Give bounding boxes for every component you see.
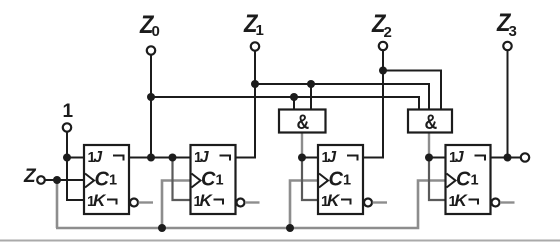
U1 inverted output stub wire (139, 201, 154, 203)
wire drop Z0 rail to left AND gate (293, 97, 295, 110)
bottom page rule (0, 240, 560, 242)
junction Z3 at Q4 (504, 154, 512, 162)
junction bus to U2 clock (158, 224, 166, 232)
label Z3 (496, 9, 517, 40)
svg-text:0: 0 (152, 23, 160, 40)
U4 inverted output bubble (492, 199, 500, 207)
wire Z0 vertical (150, 55, 152, 158)
U3 inverted output stub wire (373, 201, 388, 203)
svg-text:2: 2 (384, 24, 392, 41)
terminal Z0 (147, 46, 155, 54)
svg-text:1: 1 (216, 173, 224, 189)
output terminal right (521, 153, 529, 161)
U3 inverted output bubble (364, 199, 372, 207)
svg-text:&: & (425, 111, 438, 135)
svg-text:1: 1 (63, 101, 74, 122)
AND gate G2 (&) (408, 110, 452, 135)
svg-text:1: 1 (471, 173, 479, 189)
wire Z3 vertical (507, 51, 509, 158)
terminal 1 (63, 123, 71, 131)
junction Z0 at Q1 (147, 154, 155, 162)
wire clock bottom bus with riser to U4 C1 (56, 181, 445, 229)
junction Z1 rail (251, 80, 259, 88)
JK flip-flop U4 box (446, 145, 491, 214)
svg-text:&: & (297, 111, 310, 135)
label Z2 (371, 10, 392, 41)
svg-text:J: J (328, 149, 337, 166)
label Z1 (243, 10, 264, 39)
junction Z1 to G1 (307, 80, 315, 88)
svg-text:C: C (456, 169, 471, 191)
junction Z0 rail (147, 93, 155, 101)
svg-text:K: K (327, 191, 341, 210)
wire U4 Q to output terminal (491, 157, 521, 159)
terminal Z (37, 176, 45, 184)
terminal Z2 (379, 42, 387, 50)
svg-text:K: K (93, 191, 107, 210)
svg-text:K: K (200, 191, 214, 210)
wire clock from Z down to bottom bus (56, 181, 59, 228)
U2 inverted output stub wire (245, 201, 260, 203)
label Z0 (139, 11, 160, 40)
wire U3 J to K drop (302, 158, 318, 201)
wire drop Z1 rail to left AND gate (310, 84, 312, 110)
junction U3 J/K (298, 154, 306, 162)
svg-text:1: 1 (343, 173, 351, 189)
junction bus to U3 clock (286, 224, 294, 232)
wire rail Z1 to right AND gate (255, 84, 429, 110)
U4 inverted output stub wire (500, 201, 515, 203)
wire rail Z2 to right AND gate (383, 71, 441, 111)
svg-text:J: J (455, 149, 464, 166)
svg-text:C: C (329, 169, 344, 191)
wire Z2 vertical to U3 Q (363, 50, 383, 158)
wire Z terminal to U1 C1 (45, 179, 85, 181)
junction U2 J/K (169, 154, 177, 162)
svg-text:Z: Z (23, 166, 37, 187)
svg-text:C: C (95, 169, 110, 191)
wire left AND output to U3 1J (301, 133, 303, 158)
svg-text:1: 1 (256, 22, 264, 39)
wire U4 J to K drop (429, 158, 446, 201)
junction U4 J/K (425, 154, 433, 162)
JK flip-flop U3 box (318, 145, 363, 214)
svg-text:1: 1 (109, 173, 117, 189)
terminal Z3 (503, 42, 511, 50)
wire right AND output to U4 1J (428, 133, 430, 158)
U2 inverted output bubble (237, 199, 245, 207)
svg-text:K: K (455, 191, 469, 210)
svg-text:3: 3 (509, 23, 517, 40)
JK flip-flop U2 box (191, 145, 236, 214)
wire U2 J to K drop (173, 158, 191, 201)
svg-text:C: C (201, 169, 216, 191)
wire Z1 vertical to U2 Q (236, 51, 256, 158)
JK flip-flop U1 box (84, 145, 129, 214)
junction Z2 rail (379, 67, 387, 75)
wire 1-terminal to U1 1J and 1K (66, 132, 68, 158)
terminal Z1 (251, 42, 259, 50)
wire rail Z0 to right AND gate (151, 97, 419, 110)
svg-text:J: J (200, 149, 209, 166)
AND gate G1 (&) (279, 110, 326, 135)
wire clock riser to U3 C1 (290, 181, 317, 229)
wire U1 Q to U2 1J (129, 157, 191, 159)
junction Z clock (53, 176, 61, 184)
junction 1-to-J/K (63, 154, 71, 162)
U1 inverted output bubble (130, 199, 138, 207)
svg-text:J: J (94, 149, 103, 166)
wire clock riser to U2 C1 (162, 181, 190, 229)
junction Z0 to G1 (290, 93, 298, 101)
